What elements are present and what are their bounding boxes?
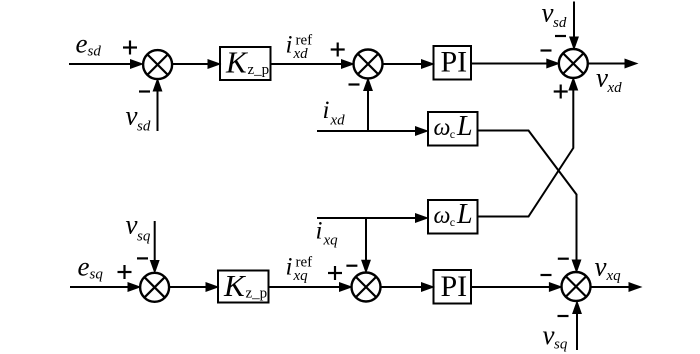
svg-text:i: i (323, 97, 330, 124)
svg-text:e: e (78, 251, 90, 281)
minus sign above S3b (558, 258, 569, 260)
wire i_xq branch down to S2b (362, 218, 371, 272)
plus sign below S3 (554, 85, 568, 99)
svg-text:sd: sd (137, 119, 151, 135)
svg-text:z_p: z_p (246, 286, 268, 302)
label v_sd top (542, 0, 567, 31)
svg-text:i: i (316, 217, 323, 244)
summing junction S3b (562, 272, 591, 301)
summing junction S3 (559, 49, 588, 78)
label v_sq (126, 210, 151, 245)
wire v_sd into S1 (153, 79, 162, 131)
svg-text:xq: xq (293, 268, 309, 284)
wire v_sd top input (570, 2, 579, 50)
wire v_xd output (588, 59, 637, 68)
plus sign at S1 (123, 41, 137, 55)
svg-text:sq: sq (90, 267, 104, 283)
wire i_xd input (317, 127, 428, 136)
wire S2b to PI bottom (381, 283, 434, 292)
summing junction S2 (354, 50, 383, 79)
svg-text:v: v (542, 0, 554, 28)
minus sign before S3 (541, 49, 552, 51)
PI controller block (bottom) (434, 270, 472, 304)
summing junction S1b (140, 273, 169, 302)
minus sign at S2 (349, 83, 360, 85)
label K_z_p top (225, 44, 269, 79)
label e_sd (76, 29, 102, 60)
svg-text:L: L (456, 199, 473, 230)
label v_xd (596, 62, 622, 96)
svg-text:xd: xd (607, 80, 623, 96)
summing junction S2b (352, 273, 381, 302)
wire wcL bottom to S3 (cross) (478, 78, 578, 217)
wire PI to S3b (471, 283, 561, 292)
PI controller block (top) (434, 46, 472, 80)
plus sign at S2b (328, 266, 342, 280)
svg-text:v: v (596, 62, 608, 92)
wire Kz_p to S2 (271, 60, 354, 69)
gain block Kz_p (bottom) (218, 271, 269, 303)
label K_z_p bottom (223, 268, 267, 303)
wire e_sq input (70, 283, 140, 292)
svg-text:sd: sd (88, 44, 102, 60)
decoupling block wcL (top) (428, 112, 478, 146)
label i_xd_ref (286, 32, 313, 62)
wire wcL top to S3b (cross) (478, 131, 581, 273)
svg-text:K: K (225, 44, 249, 79)
wire i_xd branch up to S2 (364, 79, 373, 132)
wire i_xq input (317, 214, 428, 223)
plus sign at S1b (118, 265, 132, 279)
svg-text:z_p: z_p (248, 62, 270, 78)
svg-text:c: c (450, 215, 455, 229)
label PI top (441, 46, 468, 79)
wire S2 to PI (383, 60, 434, 69)
svg-text:sq: sq (554, 337, 568, 353)
label PI bottom (441, 270, 468, 303)
svg-text:L: L (456, 111, 473, 142)
label v_sq bottom (543, 320, 568, 353)
minus sign at S2b (346, 265, 357, 267)
wire Kz_p to S2b (269, 283, 352, 292)
svg-text:xd: xd (293, 46, 309, 62)
svg-text:v: v (543, 320, 555, 350)
label i_xq_ref (286, 254, 313, 285)
svg-text:v: v (126, 101, 138, 131)
minus sign before S3b (541, 274, 552, 276)
gain block Kz_p (top) (220, 47, 271, 80)
decoupling block wcL (bottom) (428, 200, 478, 234)
summing junction S1 (143, 50, 172, 79)
svg-text:xq: xq (323, 233, 339, 249)
label e_sq (78, 251, 104, 282)
wire S1b to Kz_p bottom (169, 283, 218, 292)
minus sign below S3b (558, 315, 569, 317)
wire S1 to Kz_p (172, 60, 221, 69)
wire v_xq output (591, 283, 642, 292)
svg-text:sq: sq (137, 229, 151, 245)
wire e_sd input (69, 60, 143, 69)
label v_xq (595, 252, 622, 285)
wire v_sq into S1b (150, 221, 159, 273)
svg-text:PI: PI (441, 270, 468, 303)
svg-text:ω: ω (434, 115, 451, 141)
svg-text:xq: xq (606, 268, 622, 284)
minus sign at S1 (139, 90, 150, 92)
minus sign above S3 (555, 35, 566, 37)
label v_sd (126, 101, 151, 135)
wire PI to S3 (471, 59, 559, 68)
svg-text:c: c (450, 127, 455, 141)
label omega_c L bottom (434, 199, 473, 230)
svg-text:v: v (126, 210, 138, 240)
svg-text:sd: sd (553, 15, 567, 31)
svg-text:PI: PI (441, 46, 468, 79)
svg-text:xd: xd (330, 113, 346, 129)
wire v_sq bottom input (573, 302, 582, 351)
svg-text:K: K (223, 268, 247, 303)
svg-text:i: i (286, 254, 293, 281)
plus sign at S2 (331, 43, 345, 57)
label i_xd (323, 97, 346, 128)
svg-text:ω: ω (434, 203, 451, 229)
label i_xq (316, 217, 339, 248)
label omega_c L top (434, 111, 473, 142)
minus sign at S1b (137, 257, 148, 259)
svg-text:v: v (595, 252, 607, 282)
svg-text:e: e (76, 29, 88, 59)
svg-text:i: i (286, 32, 293, 59)
